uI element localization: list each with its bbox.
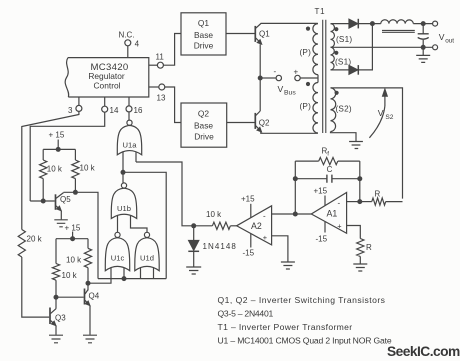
svg-text:Drive: Drive: [194, 131, 214, 141]
resistor 10k into A2: [196, 210, 237, 229]
block Q1 Base Drive: [181, 13, 226, 55]
terminal Vout plus: [433, 21, 438, 26]
wire A1 output to A2 inverting input: [272, 213, 312, 215]
terminal Vout minus: [433, 45, 438, 50]
node rectifier output dot: [370, 21, 375, 26]
transformer T1 primary winding P2: [300, 82, 319, 133]
svg-text:A1: A1: [327, 209, 338, 219]
ground below 1N4148: [186, 267, 201, 274]
svg-text:(P): (P): [300, 102, 312, 111]
svg-text:-15: -15: [316, 235, 328, 244]
svg-text:+: +: [263, 233, 267, 242]
wire S2 bottom to ground: [331, 132, 357, 142]
wire +15 stub: [57, 140, 59, 150]
wire rail 1: [43, 148, 75, 150]
svg-text:Q1, Q2 – Inverter Switching Tr: Q1, Q2 – Inverter Switching Transistors: [218, 295, 386, 305]
svg-text:Control: Control: [94, 81, 121, 91]
svg-text:R: R: [366, 243, 372, 252]
wire pin13 to Q2 base drive: [165, 87, 181, 123]
wire U1a right input to 1N4148 node: [135, 152, 137, 162]
wire node to U1a feedback: [136, 162, 194, 226]
svg-text:Q4: Q4: [89, 292, 100, 301]
wire S1a top to rectifier: [331, 23, 349, 25]
transformer T1 secondary S1a: [331, 24, 353, 48]
node cap bottom dot: [421, 45, 426, 50]
wire U1b left input to U1c output: [117, 216, 119, 233]
svg-text:Bus: Bus: [284, 90, 296, 97]
resistor 10k right lower: [66, 239, 92, 284]
wire U1b right input to U1d output: [131, 216, 148, 233]
svg-text:-: -: [338, 198, 341, 207]
polarity dot S1a: [334, 27, 338, 31]
inductor L output choke: [381, 20, 415, 33]
resistor R sense (S2 to A1): [362, 190, 403, 206]
legend text: [218, 295, 392, 345]
terminal VBus minus: [276, 75, 281, 80]
svg-text:V: V: [378, 108, 384, 118]
ground Q4: [83, 335, 97, 343]
svg-text:20 k: 20 k: [27, 235, 43, 244]
transformer T1 secondary S1b: [331, 47, 352, 70]
svg-text:(S2): (S2): [336, 105, 352, 114]
ground Q5: [54, 220, 68, 227]
svg-text:Q3-5 – 2N4401: Q3-5 – 2N4401: [218, 309, 274, 319]
wire U1c inputs to line: [111, 267, 124, 278]
node Q5 base dot: [41, 199, 46, 204]
wire inductor to output: [413, 23, 432, 25]
svg-text:Regulator: Regulator: [88, 71, 125, 81]
svg-text:11: 11: [156, 53, 165, 62]
polarity dot S2: [335, 91, 339, 95]
wire A1 noninverting input to R ground: [347, 226, 361, 236]
wire rail 2: [56, 238, 88, 240]
diode D2: [349, 65, 359, 75]
svg-text:U1a: U1a: [123, 140, 138, 149]
node gate input dot: [122, 276, 127, 281]
wire D1 cathode to filter node: [359, 23, 381, 25]
wire VBus plus to primary center tap: [300, 77, 318, 79]
wire S1b bottom to D2: [331, 69, 349, 71]
svg-text:out: out: [445, 38, 454, 45]
wire A2 noninverting input to ground: [272, 236, 288, 262]
svg-text:+15: +15: [241, 195, 255, 204]
terminal VBus plus: [295, 75, 300, 80]
wire node right then down to gate input line: [123, 172, 166, 278]
svg-text:Base: Base: [194, 120, 213, 130]
wire gate input line: [98, 278, 166, 280]
pin 11: [149, 53, 165, 69]
wire Q4 emitter to ground: [89, 306, 91, 335]
svg-text:10 k: 10 k: [62, 271, 78, 280]
resistor R to ground at A1: [357, 235, 372, 264]
pin 4 N.C.: [119, 31, 140, 58]
wire Q1 box to Q1 base: [226, 33, 255, 35]
svg-text:Base: Base: [194, 30, 213, 40]
transistor Q5: [30, 193, 71, 211]
node C right dot: [357, 176, 362, 181]
transistor Q4: [56, 283, 100, 305]
svg-text:10 k: 10 k: [47, 165, 63, 174]
svg-text:Drive: Drive: [194, 41, 214, 51]
polarity dot primary P2: [306, 82, 310, 86]
svg-text:Q2: Q2: [259, 119, 270, 128]
svg-text:+ 15: + 15: [65, 223, 81, 232]
transistor Q2: [255, 111, 317, 133]
wire feedback right vertical: [359, 161, 361, 202]
transistor Q3: [50, 297, 66, 326]
svg-text:Q1: Q1: [198, 18, 210, 28]
svg-text:(S1): (S1): [336, 35, 352, 44]
label Vout: [439, 32, 455, 45]
resistor 20k: [18, 230, 42, 258]
wire Q4 collector node jog to gate line: [88, 279, 111, 284]
node U1a input dot: [121, 170, 126, 175]
svg-text:(P): (P): [300, 48, 312, 57]
resistor 10k right upper: [72, 149, 96, 192]
wire +15 stub 2: [72, 232, 74, 239]
svg-text:A2: A2: [251, 221, 262, 231]
wire 20k to Q3 base: [22, 257, 49, 317]
wire Q5 emitter to ground: [60, 211, 62, 220]
wire pin11 to Q1 base drive: [163, 34, 181, 66]
wire pin16 to U1a output bubble: [128, 112, 130, 120]
transformer T1 secondary S2: [331, 88, 352, 132]
wire node to U1b output: [122, 172, 124, 183]
svg-text:Q3: Q3: [55, 314, 66, 323]
node C left dot: [293, 176, 298, 181]
svg-text:-: -: [263, 212, 266, 221]
ground S2: [349, 142, 363, 149]
wire Q1 emitter to Q2 collector rail: [259, 44, 261, 111]
node Q4 base dot: [54, 295, 59, 300]
pin 13: [149, 84, 166, 103]
wire VBus minus: [260, 77, 276, 79]
node Q4 collector dot: [86, 281, 91, 286]
wire A1 inverting input: [347, 201, 360, 203]
node A1 output dot: [293, 212, 298, 217]
op-amp A2: [237, 195, 272, 258]
regulator U MC3420 box: [65, 58, 149, 97]
wire primary center tap: [317, 75, 319, 83]
svg-text:f: f: [327, 150, 329, 157]
svg-text:13: 13: [157, 94, 166, 103]
svg-text:Q5: Q5: [60, 195, 71, 204]
polarity dot primary P1: [306, 27, 310, 31]
wire pin 3 down to 20k: [22, 111, 79, 229]
svg-text:S2: S2: [385, 114, 393, 121]
resistor Rf: [295, 146, 360, 164]
svg-text:T1: T1: [315, 7, 326, 16]
wire pin 14 down left column: [30, 112, 105, 201]
op-amp A1: [311, 187, 346, 244]
resistor 10k left upper: [40, 149, 63, 201]
label VS2: [378, 108, 394, 121]
NOR gate U1d: [135, 232, 159, 270]
NOR gate U1c: [105, 232, 129, 270]
label VBus: [278, 84, 297, 97]
svg-text:C: C: [327, 165, 333, 174]
svg-text:14: 14: [110, 106, 119, 115]
svg-text:-15: -15: [243, 249, 255, 258]
svg-text:V: V: [278, 84, 284, 94]
capacitor C output: [418, 24, 429, 48]
node rail 2 dot: [70, 236, 75, 241]
ground Q3: [49, 335, 63, 343]
ground below R: [353, 264, 367, 271]
svg-text:T1 – Inverter Power Transforme: T1 – Inverter Power Transformer: [218, 322, 353, 332]
pin 3: [68, 97, 82, 115]
svg-text:3: 3: [68, 106, 73, 115]
svg-text:U1 – MC14001 CMOS Quad 2 Input: U1 – MC14001 CMOS Quad 2 Input NOR Gate: [218, 335, 392, 345]
wire feedback left vertical: [294, 161, 296, 214]
svg-text:+15: +15: [314, 187, 328, 196]
ground at A2 input: [281, 262, 295, 269]
node 1N4148 junction dot: [191, 223, 196, 228]
svg-text:SeekIC.com: SeekIC.com: [387, 344, 460, 359]
svg-text:Q1: Q1: [259, 30, 270, 39]
pin 16: [126, 97, 143, 115]
wire return line center tap to Vout minus: [331, 46, 433, 48]
svg-text:U1d: U1d: [140, 254, 154, 263]
svg-text:16: 16: [134, 106, 143, 115]
diode D1: [349, 19, 359, 29]
svg-text:+: +: [337, 222, 341, 231]
resistor 10k left lower: [52, 239, 77, 298]
node A1 inverting input dot: [357, 199, 362, 204]
svg-text:V: V: [439, 32, 445, 42]
svg-text:1N4148: 1N4148: [203, 242, 237, 251]
node VBus rail dot: [258, 76, 263, 81]
wire S2 top to sense line: [331, 88, 403, 199]
pin 14: [102, 97, 119, 115]
block Q2 Base Drive: [181, 103, 227, 147]
svg-text:N.C.: N.C.: [119, 31, 135, 40]
node filter cap top dot: [421, 21, 426, 26]
wire D2 cathode up to rectifier node: [359, 24, 373, 70]
svg-text:U1c: U1c: [111, 253, 125, 262]
svg-text:10 k: 10 k: [80, 163, 96, 172]
svg-text:+ 15: + 15: [49, 131, 65, 140]
ground output: [416, 47, 430, 62]
svg-text:Q2: Q2: [198, 109, 210, 119]
transistor Q1: [255, 23, 317, 44]
node Q5 collector dot: [73, 190, 78, 195]
svg-text:U1b: U1b: [117, 204, 131, 213]
wire gate line up-left to Q5 collector: [64, 192, 99, 278]
svg-text:10 k: 10 k: [206, 210, 222, 219]
svg-text:+: +: [294, 68, 299, 77]
wire U1a left input down to node: [122, 152, 124, 170]
svg-text:-: -: [274, 67, 277, 76]
transformer T1 primary winding P1: [300, 24, 319, 75]
NOR gate U1a: [117, 120, 141, 155]
transformer T1 core: [323, 20, 326, 133]
diode 1N4148: [188, 226, 237, 267]
node rail 1 dot: [56, 147, 61, 152]
capacitor C feedback: [295, 165, 360, 183]
NOR gate U1b: [111, 183, 136, 219]
polarity dot S1b: [334, 51, 338, 55]
wire U1d inputs to line: [141, 267, 154, 278]
wire Q3 emitter to ground: [55, 326, 57, 335]
wire Q2 box to Q2 base: [227, 122, 255, 124]
svg-text:4: 4: [135, 39, 140, 48]
svg-text:R: R: [375, 190, 381, 199]
arrow VS2: [369, 89, 387, 138]
svg-text:10 k: 10 k: [66, 256, 82, 265]
